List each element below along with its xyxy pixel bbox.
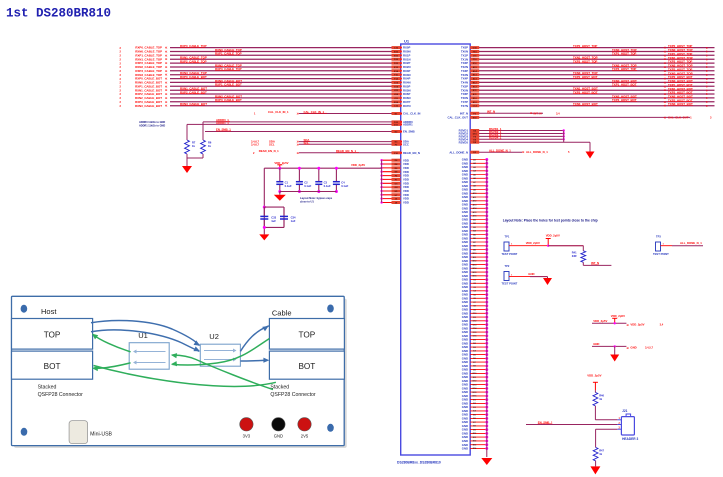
svg-text:TOP: TOP <box>299 331 316 340</box>
svg-text:CAL_CLK_OUT_1: CAL_CLK_OUT_1 <box>668 115 692 119</box>
svg-text:HEADER 3: HEADER 3 <box>622 437 638 441</box>
svg-text:3,4: 3,4 <box>556 111 560 115</box>
svg-text:VDD_2p5V: VDD_2p5V <box>587 374 601 378</box>
svg-text:TEST POINT: TEST POINT <box>653 252 669 256</box>
svg-text:close to U1: close to U1 <box>300 200 314 204</box>
svg-text:ALL_DONE_N_1: ALL_DONE_N_1 <box>680 241 702 245</box>
svg-text:TX7N: TX7N <box>461 104 468 108</box>
svg-text:GND: GND <box>462 447 468 451</box>
svg-text:TP2: TP2 <box>505 264 510 268</box>
svg-text:ALL_DONE_N_1: ALL_DONE_N_1 <box>526 150 548 154</box>
svg-text:ADDR1_1: ADDR1_1 <box>216 121 229 125</box>
svg-text:Stacked: Stacked <box>270 385 289 391</box>
svg-text:Layout Note: bypass caps: Layout Note: bypass caps <box>300 196 333 200</box>
svg-text:CAL_CLK_IN: CAL_CLK_IN <box>403 112 420 116</box>
svg-text:VDD_2p5V: VDD_2p5V <box>611 314 625 318</box>
svg-text:ADDR1: ADDR1 <box>403 123 413 127</box>
svg-text:0.1uF: 0.1uF <box>285 184 292 188</box>
svg-text:READ_EN_N_1: READ_EN_N_1 <box>259 149 279 153</box>
svg-text:3,4: 3,4 <box>660 322 664 326</box>
svg-text:TEST POINT: TEST POINT <box>502 252 518 256</box>
svg-text:3V3: 3V3 <box>243 433 251 438</box>
svg-text:C4: C4 <box>341 180 345 184</box>
svg-text:Cable: Cable <box>272 308 292 317</box>
svg-text:QSFP28 Connector: QSFP28 Connector <box>270 392 316 398</box>
svg-text:DS280BR8xx_DS280BR810: DS280BR8xx_DS280BR810 <box>397 461 441 465</box>
svg-text:VDD_2p5V: VDD_2p5V <box>351 163 365 167</box>
svg-text:33R: 33R <box>572 254 577 258</box>
svg-text:CAL_CLK_IN_1: CAL_CLK_IN_1 <box>268 110 289 114</box>
svg-text:C33: C33 <box>271 216 276 220</box>
svg-text:J21: J21 <box>622 409 628 413</box>
svg-text:INT_N: INT_N <box>534 111 542 115</box>
svg-text:TP1: TP1 <box>505 235 510 239</box>
svg-text:TOP: TOP <box>44 331 61 340</box>
svg-text:Mini-USB: Mini-USB <box>90 431 112 437</box>
svg-text:RXN3_CABLE_BOT: RXN3_CABLE_BOT <box>135 104 162 108</box>
svg-text:C2: C2 <box>304 180 308 184</box>
svg-text:QSFP28 Connector: QSFP28 Connector <box>38 392 84 398</box>
svg-text:R41: R41 <box>572 250 577 254</box>
svg-text:0.1uF: 0.1uF <box>304 184 311 188</box>
svg-text:VDD: VDD <box>403 201 409 205</box>
svg-text:ADDR1 11k/1k to GND: ADDR1 11k/1k to GND <box>139 124 165 127</box>
svg-text:VDD_2p5V: VDD_2p5V <box>546 234 560 238</box>
svg-text:GND: GND <box>593 342 599 346</box>
svg-text:RX7N: RX7N <box>403 104 410 108</box>
svg-text:Host: Host <box>41 307 57 316</box>
svg-text:1uF: 1uF <box>291 219 296 223</box>
svg-text:C1: C1 <box>285 180 289 184</box>
svg-text:Layout Note: Place the holes f: Layout Note: Place the holes for test po… <box>503 219 598 223</box>
svg-text:VDD_2p5V: VDD_2p5V <box>526 241 540 245</box>
svg-text:1uF: 1uF <box>271 219 276 223</box>
svg-text:READ_EN_N: READ_EN_N <box>403 151 420 155</box>
svg-text:C34: C34 <box>291 216 296 220</box>
svg-text:2V5: 2V5 <box>301 433 309 438</box>
svg-text:0.1uF: 0.1uF <box>341 184 348 188</box>
svg-text:U2: U2 <box>209 332 219 341</box>
svg-text:SCL: SCL <box>269 142 275 146</box>
svg-text:R46: R46 <box>599 394 604 398</box>
svg-text:0.1uF: 0.1uF <box>324 184 331 188</box>
svg-text:GND: GND <box>630 346 636 350</box>
svg-text:TEST POINT: TEST POINT <box>502 282 518 286</box>
svg-text:CAL_CLK_OUT: CAL_CLK_OUT <box>447 116 468 120</box>
svg-text:EN_SMB: EN_SMB <box>403 130 415 134</box>
svg-text:SCC: SCC <box>403 142 409 146</box>
svg-text:C3: C3 <box>324 180 328 184</box>
svg-text:BOT: BOT <box>44 362 61 371</box>
svg-text:1st DS280BR810: 1st DS280BR810 <box>6 7 111 21</box>
svg-text:3,4,6,7: 3,4,6,7 <box>251 142 259 146</box>
svg-text:3,4,5,7: 3,4,5,7 <box>645 346 653 350</box>
svg-text:VDD_2p5V: VDD_2p5V <box>630 323 644 327</box>
svg-text:VDD_2p5V: VDD_2p5V <box>593 319 607 323</box>
svg-text:BOT: BOT <box>298 362 315 371</box>
svg-text:ALL_DONE_N: ALL_DONE_N <box>449 150 468 154</box>
svg-text:Stacked: Stacked <box>38 385 57 391</box>
svg-text:U1: U1 <box>404 39 410 44</box>
svg-text:GND: GND <box>274 433 283 438</box>
svg-text:RSVD5: RSVD5 <box>459 140 469 144</box>
svg-text:GND: GND <box>528 272 534 276</box>
svg-text:R47: R47 <box>599 449 604 453</box>
svg-text:TP3: TP3 <box>656 235 661 239</box>
